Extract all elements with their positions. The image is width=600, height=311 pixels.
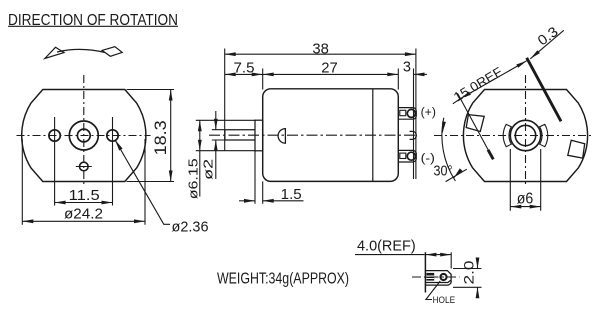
detail HOLE text <box>433 295 456 306</box>
dim 0.3 text <box>534 23 561 48</box>
front view horizontal centerline <box>17 135 151 137</box>
terminal bottom tab <box>399 150 417 162</box>
dim 6.15 ext lines <box>196 120 256 150</box>
detail centerline <box>412 276 460 278</box>
dim 30 arc <box>442 118 456 181</box>
dim 18.3 ext lines <box>127 90 175 182</box>
detail HOLE leader <box>426 281 440 300</box>
dim 11.5 line <box>55 202 113 204</box>
plus label <box>421 107 436 119</box>
title underline <box>8 25 178 27</box>
detail hole circle <box>440 274 446 280</box>
svg-text:3: 3 <box>403 59 411 75</box>
dim 1.5 ext lines <box>255 151 263 204</box>
dim 38 ext lines <box>225 49 416 180</box>
rotation arrow right head <box>102 47 122 57</box>
dim 7.5 text <box>234 61 255 77</box>
svg-text:(+): (+) <box>421 107 436 119</box>
svg-text:15.0REF: 15.0REF <box>451 64 505 105</box>
dim 11.5 text <box>69 188 100 204</box>
terminal top hole <box>407 109 415 117</box>
shaft circle <box>77 129 90 142</box>
leader 2.36 arrow <box>115 140 123 151</box>
front view outline <box>22 90 146 182</box>
dim 6.15 text <box>186 158 201 199</box>
dim 1.5 line right <box>263 200 304 202</box>
dim 7.5/27 ext verticals <box>263 69 414 180</box>
dim 38 text <box>312 41 329 57</box>
vent D-mark <box>278 129 285 144</box>
detail 4.0 ext right <box>450 252 452 268</box>
dim 30 arrow bottom <box>454 172 460 178</box>
dim 18.3 text <box>151 120 170 155</box>
slot thick line <box>527 58 561 122</box>
shaft <box>225 130 255 140</box>
detail crimp stripes <box>426 276 434 278</box>
detail cap wall <box>424 252 426 292</box>
terminal top tab <box>399 108 417 120</box>
bushing <box>255 120 263 151</box>
bottom hole <box>80 162 89 171</box>
detail 2.0 dim bottom <box>477 287 479 297</box>
svg-text:2.0: 2.0 <box>461 260 477 284</box>
svg-text:ø24.2: ø24.2 <box>64 207 103 223</box>
dim 30 arrow top <box>443 122 445 133</box>
left brush crescent <box>503 124 511 146</box>
svg-text:ø2.36: ø2.36 <box>172 219 209 236</box>
dim 2 ext lines <box>212 130 225 140</box>
dim 6.15 line <box>199 120 201 150</box>
detail 4.0 leader underline <box>355 254 425 256</box>
side view cap line <box>372 89 374 182</box>
svg-text:0.3: 0.3 <box>534 23 561 48</box>
terminal bottom hole <box>407 152 415 160</box>
dim 6 ext lines <box>510 149 540 211</box>
rear boss bump <box>410 131 417 139</box>
right hole centerline / ext line <box>112 117 114 206</box>
dim 18.3 line <box>170 90 172 182</box>
weight text <box>217 269 349 287</box>
dim 30 radius line <box>446 169 467 181</box>
slot ext line 62deg <box>458 93 489 150</box>
dim 2.36 text <box>172 219 209 236</box>
left hole <box>49 130 60 141</box>
svg-text:WEIGHT:34g(APPROX): WEIGHT:34g(APPROX) <box>217 269 349 287</box>
terminal top inner rect <box>400 110 406 115</box>
dim 24.2 text <box>64 207 103 223</box>
side view body <box>263 89 399 182</box>
dim 1.5 text <box>281 187 302 203</box>
rear view outline <box>463 90 587 182</box>
dim 30 text <box>434 163 453 180</box>
right vent <box>568 140 585 158</box>
boss circle <box>69 121 98 150</box>
rotation arrow left head <box>45 47 64 58</box>
leader 2.36 <box>116 141 170 224</box>
dim 24.2 ext lines <box>22 139 145 225</box>
svg-text:18.3: 18.3 <box>151 120 170 155</box>
terminal bottom inner rect <box>400 153 406 158</box>
rear shaft hole circle <box>515 125 535 145</box>
detail terminal tab <box>425 271 451 286</box>
upper-left vent <box>466 115 484 132</box>
detail 4.0REF text <box>357 237 416 254</box>
left hole centerline / ext line <box>54 117 56 206</box>
svg-text:ø6: ø6 <box>517 191 534 208</box>
slot dash lower-left <box>488 150 493 160</box>
rear bearing outer circle <box>510 120 540 150</box>
dim 2 text <box>201 159 216 180</box>
detail 4.0 dim line <box>425 254 451 256</box>
dim 6.15 line tail <box>199 151 201 197</box>
detail 2.0 text <box>461 260 477 284</box>
dim 3 text <box>403 59 411 75</box>
svg-text:30°: 30° <box>434 163 453 180</box>
dim 6 line <box>510 206 540 208</box>
dim 2 line top <box>215 111 217 130</box>
right brush crescent <box>540 124 548 146</box>
dim 7.5 line <box>225 73 263 75</box>
dim 6 text <box>517 191 534 208</box>
dim 27 text <box>321 60 338 76</box>
svg-text:ø6.15: ø6.15 <box>186 158 201 199</box>
rear view vertical centerline <box>525 75 527 187</box>
minus label <box>421 153 435 165</box>
svg-text:1.5: 1.5 <box>281 187 302 203</box>
svg-text:11.5: 11.5 <box>69 188 100 204</box>
detail 2.0 dim top <box>477 258 479 269</box>
dim 3 ext+arrow <box>414 73 428 75</box>
dim 1.5 line left <box>239 200 255 202</box>
dim 38 line <box>225 53 416 55</box>
title DIRECTION OF ROTATION <box>8 11 178 29</box>
detail 2.0 ext lines <box>453 269 482 288</box>
dim 27 line <box>263 73 399 75</box>
bottom hole tick <box>76 166 92 168</box>
side view centerline <box>209 134 418 136</box>
dim 2 line bottom <box>215 140 217 179</box>
right hole <box>107 130 118 141</box>
svg-text:7.5: 7.5 <box>234 61 255 77</box>
rear view horizontal centerline <box>434 135 592 137</box>
rotation arrow arc <box>57 49 105 52</box>
detail crimp block <box>426 273 434 281</box>
front view vertical centerline <box>83 75 85 187</box>
svg-text:27: 27 <box>321 60 338 76</box>
svg-text:4.0(REF): 4.0(REF) <box>357 237 416 254</box>
svg-text:ø2: ø2 <box>201 159 216 180</box>
dim 0.3 line <box>530 30 564 59</box>
dim 15.0REF line <box>453 99 461 104</box>
dim 15.0REF text <box>451 64 505 105</box>
dim 24.2 line <box>22 220 145 222</box>
svg-text:HOLE: HOLE <box>433 295 456 306</box>
svg-text:38: 38 <box>312 41 329 57</box>
